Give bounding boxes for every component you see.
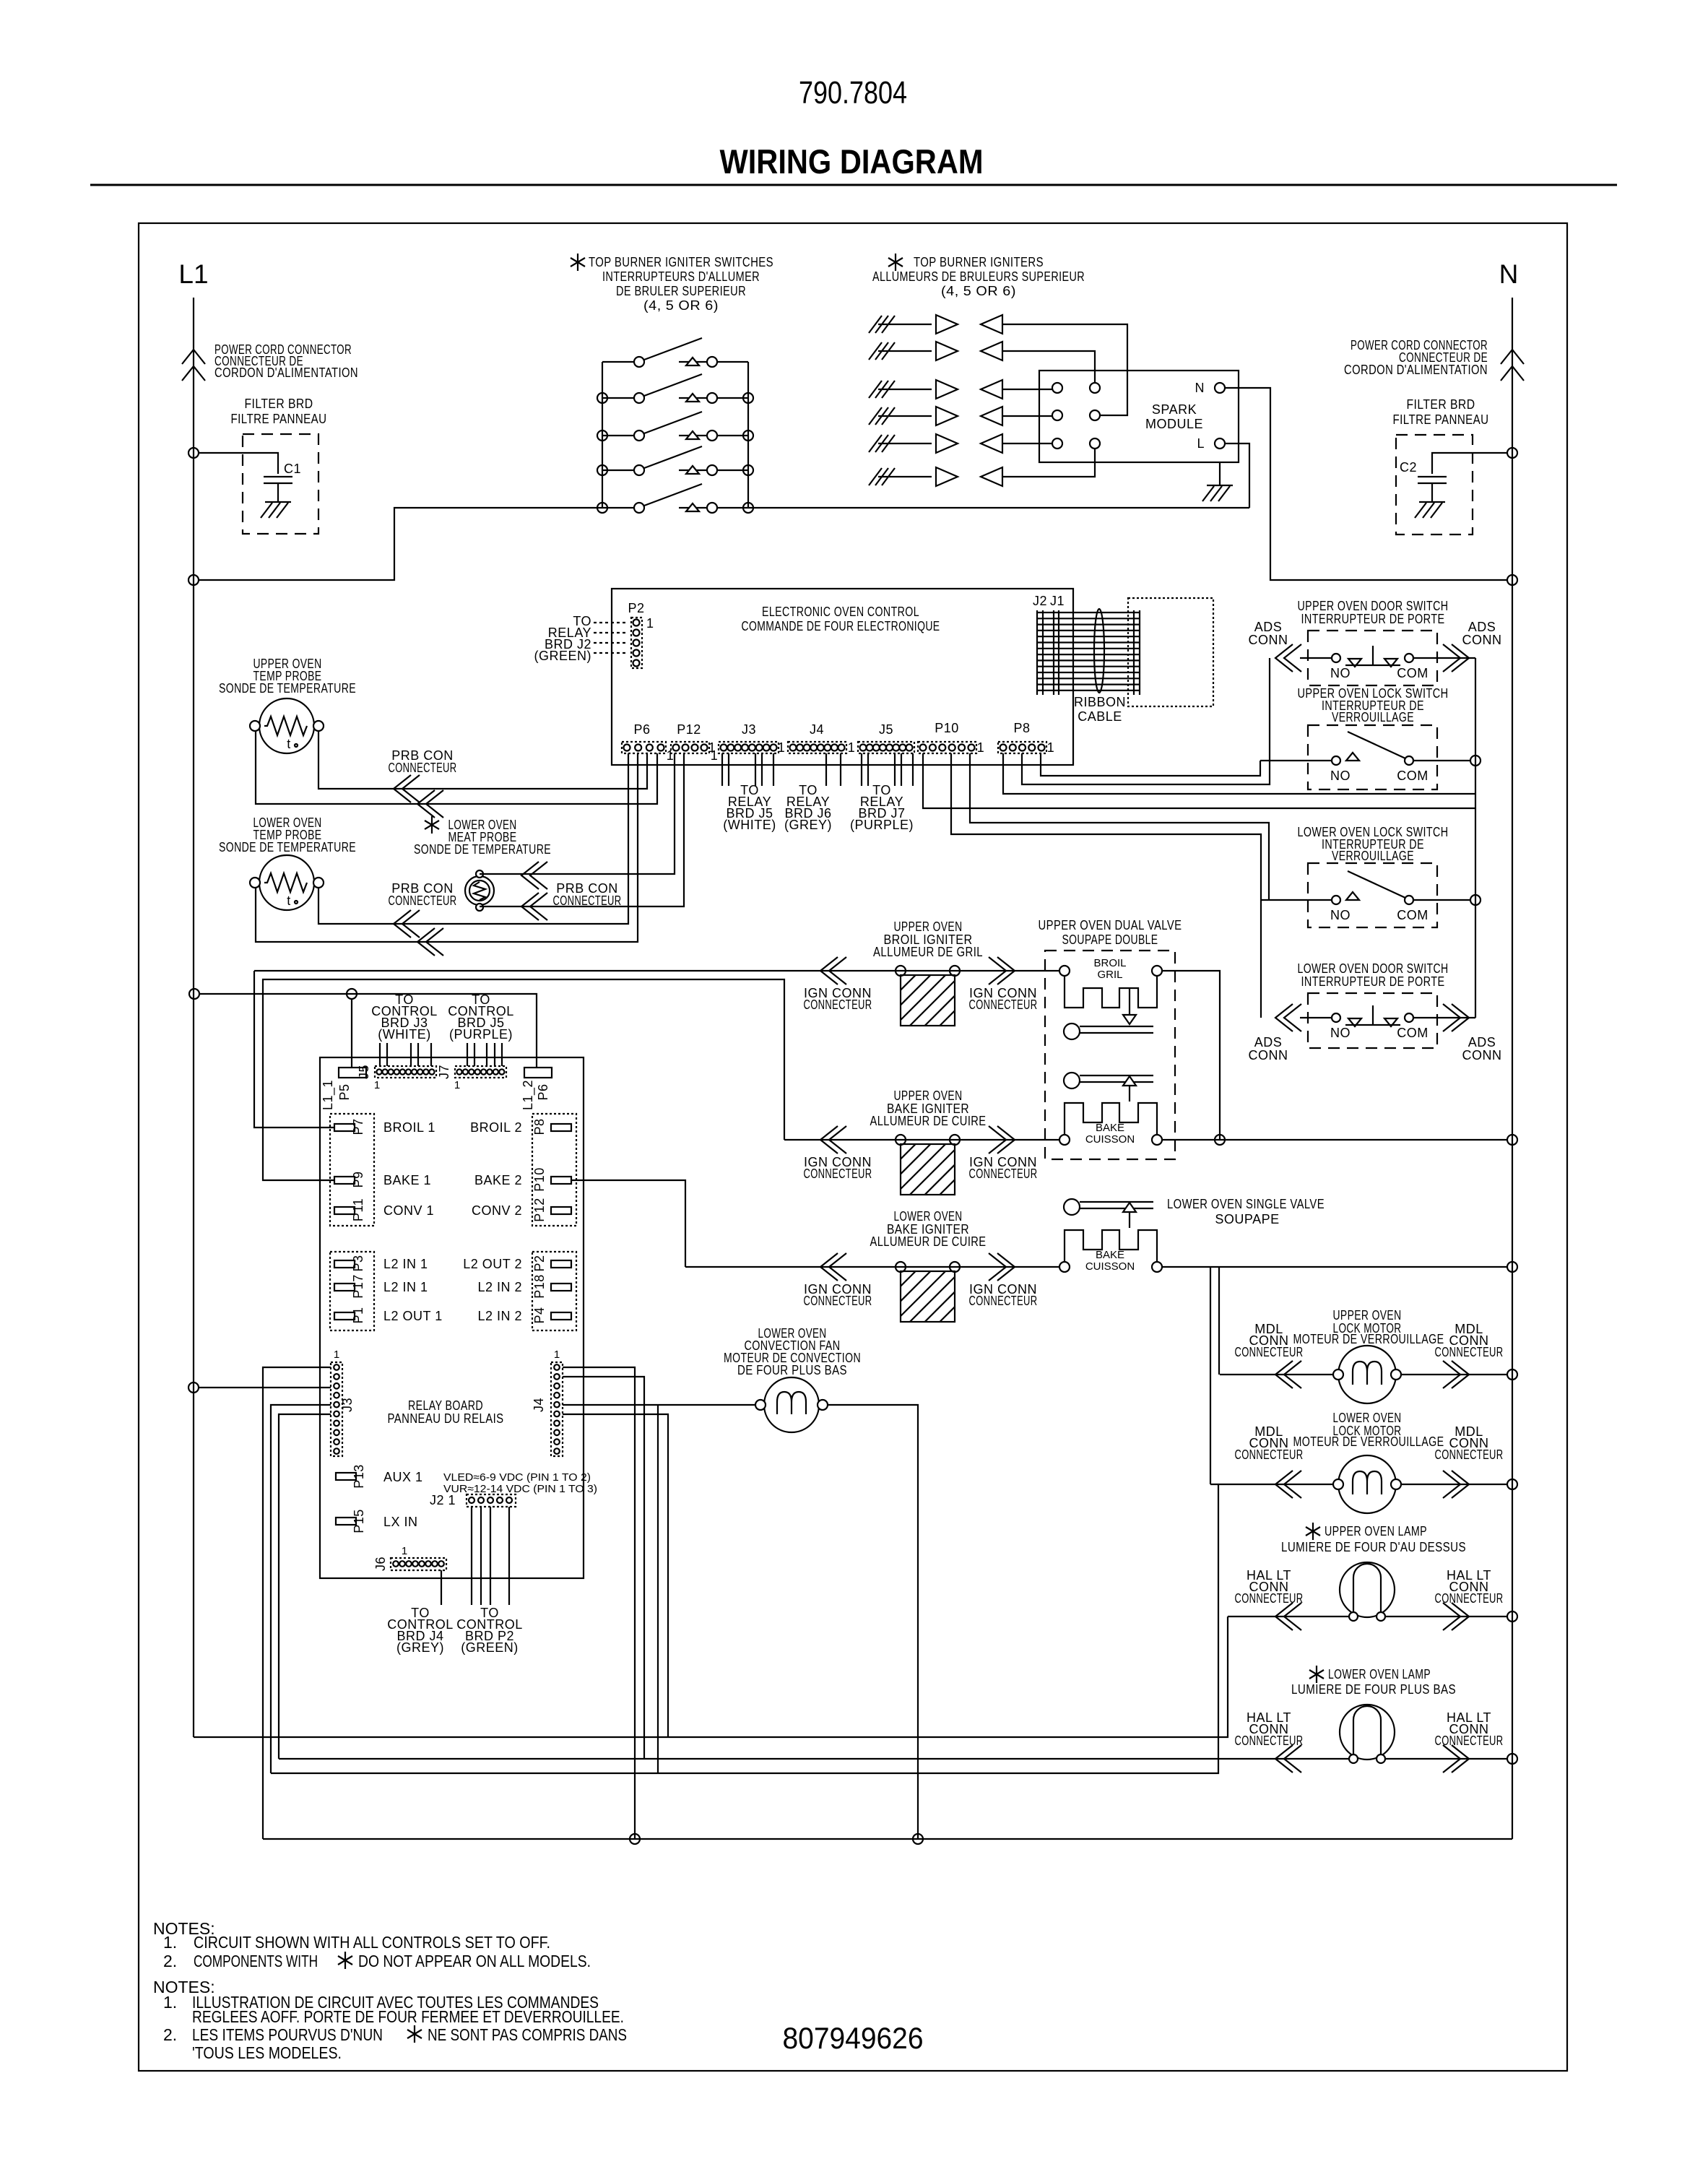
svg-text:2.: 2. <box>163 2025 177 2044</box>
svg-text:REGLEES AOFF. PORTE DE FOUR FE: REGLEES AOFF. PORTE DE FOUR FERMEE ET DE… <box>192 2007 624 2026</box>
svg-text:ALLUMEUR DE CUIRE: ALLUMEUR DE CUIRE <box>870 1234 987 1249</box>
svg-text:BAKE: BAKE <box>1096 1249 1124 1261</box>
wire P10 pin6 to lower lock switch <box>970 753 1269 900</box>
svg-text:(4, 5 OR 6): (4, 5 OR 6) <box>941 284 1016 298</box>
top burner igniter 2 <box>869 342 1002 360</box>
svg-text:NO: NO <box>1330 908 1351 922</box>
wire spark L to switch bus <box>1225 443 1249 508</box>
junction bus fan <box>913 1834 923 1844</box>
wire lower probe to P6 pin2 <box>256 753 638 942</box>
switch bank verticals <box>602 362 603 508</box>
svg-text:(GREY): (GREY) <box>396 1640 444 1655</box>
svg-text:LUMIERE DE FOUR PLUS BAS: LUMIERE DE FOUR PLUS BAS <box>1291 1682 1456 1697</box>
wire bottom bus <box>263 1838 1512 1840</box>
gas outlet bake upper <box>1064 1073 1080 1088</box>
wire P10 pin4 to lower door switch <box>951 753 1261 1018</box>
wire upper probe to P6 pin3 <box>318 731 647 789</box>
wire bake2 to lower igniter <box>571 1180 685 1267</box>
svg-text:LOWER OVEN: LOWER OVEN <box>1333 1411 1402 1425</box>
svg-text:1.: 1. <box>163 1933 177 1952</box>
svg-text:CONNECTEUR: CONNECTEUR <box>1435 1447 1504 1462</box>
svg-text:DE FOUR PLUS BAS: DE FOUR PLUS BAS <box>737 1363 847 1377</box>
connector P8 oven control <box>998 742 1046 753</box>
svg-text:CONNECTEUR: CONNECTEUR <box>969 997 1038 1012</box>
svg-text:COM: COM <box>1397 666 1429 680</box>
top burner igniter 5 <box>869 434 1002 453</box>
wire lower lock motor <box>1210 1484 1333 1485</box>
svg-text:1: 1 <box>374 1079 380 1091</box>
wire to lower lock motor <box>271 1484 1218 1773</box>
svg-text:1: 1 <box>554 1349 560 1361</box>
svg-text:P4: P4 <box>532 1307 547 1323</box>
title underline <box>90 184 1617 186</box>
svg-text:CONNECTEUR: CONNECTEUR <box>1235 1345 1304 1359</box>
svg-text:1: 1 <box>646 616 654 631</box>
svg-text:CORDON D'ALIMENTATION: CORDON D'ALIMENTATION <box>1344 363 1488 377</box>
wire lower probe to P6 pin1 <box>318 753 628 924</box>
svg-text:1: 1 <box>848 740 856 755</box>
svg-text:UPPER OVEN: UPPER OVEN <box>894 1088 963 1103</box>
svg-text:INTERRUPTEUR DE PORTE: INTERRUPTEUR DE PORTE <box>1301 612 1445 626</box>
junction switch bank <box>597 465 607 475</box>
wire igniter6 to spark <box>1002 449 1095 477</box>
connector ADS lower left <box>1275 1004 1301 1031</box>
junction N-C2 <box>1507 448 1517 458</box>
connector J2 relay <box>467 1494 516 1507</box>
junction N upper lamp <box>1507 1611 1517 1622</box>
wire broil1 loop <box>254 971 334 1128</box>
svg-text:L1: L1 <box>178 259 208 289</box>
svg-text:LUMIERE DE FOUR D'AU DESSUS: LUMIERE DE FOUR D'AU DESSUS <box>1281 1540 1466 1554</box>
svg-text:COM: COM <box>1397 908 1429 922</box>
ground C1 <box>261 502 291 518</box>
svg-text:P12: P12 <box>677 722 701 737</box>
relay board box <box>320 1057 584 1578</box>
svg-text:P12: P12 <box>532 1198 547 1222</box>
svg-text:L2 IN 1: L2 IN 1 <box>383 1280 428 1294</box>
wire C2 to N bus <box>1432 453 1507 474</box>
wire crossing vertical <box>657 1405 659 1773</box>
svg-text:ELECTRONIC OVEN CONTROL: ELECTRONIC OVEN CONTROL <box>762 605 919 619</box>
top burner igniter 3 <box>869 380 1002 399</box>
svg-text:J6: J6 <box>373 1557 388 1571</box>
svg-text:(PURPLE): (PURPLE) <box>850 818 914 832</box>
svg-text:INTERRUPTEUR DE PORTE: INTERRUPTEUR DE PORTE <box>1301 974 1445 989</box>
label upper oven lamp <box>1306 1523 1320 1540</box>
wire J4 pin1 to bus <box>563 1367 635 1839</box>
svg-text:CONNECTEUR: CONNECTEUR <box>804 1167 872 1181</box>
solenoid bake cuisson lower <box>1065 1230 1157 1262</box>
svg-text:MOTEUR DE VERROUILLAGE: MOTEUR DE VERROUILLAGE <box>1293 1434 1444 1449</box>
wire to lower lamp <box>279 1758 1257 1760</box>
svg-text:J5: J5 <box>357 1065 371 1079</box>
svg-text:P5: P5 <box>337 1083 352 1100</box>
wire P8 pin5 to upper lock switch <box>1041 753 1260 776</box>
junction N lower lamp <box>1507 1754 1517 1764</box>
svg-text:CONNECTEUR: CONNECTEUR <box>389 761 457 775</box>
svg-text:VUR≈12-14 VDC (PIN 1 TO 3): VUR≈12-14 VDC (PIN 1 TO 3) <box>443 1483 597 1495</box>
svg-text:LOWER OVEN LAMP: LOWER OVEN LAMP <box>1328 1667 1431 1682</box>
svg-text:P6: P6 <box>536 1083 550 1100</box>
svg-text:CIRCUIT SHOWN WITH ALL CONTROL: CIRCUIT SHOWN WITH ALL CONTROLS SET TO O… <box>194 1933 550 1952</box>
connector prb lower chevrons <box>394 910 420 938</box>
svg-text:LES ITEMS POURVUS D'NUN: LES ITEMS POURVUS D'NUN <box>192 2025 383 2044</box>
svg-text:J2 1: J2 1 <box>430 1493 456 1507</box>
svg-text:CONNECTEUR: CONNECTEUR <box>969 1167 1038 1181</box>
wire L1 to upper lamp <box>194 1616 1228 1737</box>
svg-text:SOUPAPE DOUBLE: SOUPAPE DOUBLE <box>1062 932 1158 947</box>
junction bus N upper <box>1507 1135 1517 1145</box>
junction bus N lower <box>1507 1262 1517 1272</box>
svg-text:RIBBON: RIBBON <box>1074 695 1126 709</box>
wire bus to lower lock motor <box>1210 1267 1211 1484</box>
svg-text:ALLUMEUR DE GRIL: ALLUMEUR DE GRIL <box>873 945 983 959</box>
wire J3 pin5 loop <box>271 1405 331 1773</box>
svg-text:(4, 5 OR 6): (4, 5 OR 6) <box>643 298 719 313</box>
connector J5 oven control <box>858 742 914 753</box>
svg-text:MODULE: MODULE <box>1145 417 1203 431</box>
igniter switch SW2 <box>602 374 748 403</box>
svg-text:P8: P8 <box>532 1118 547 1135</box>
svg-text:J3: J3 <box>340 1398 355 1412</box>
wire stubs J3 relay <box>721 753 723 786</box>
switch upper oven lock <box>1308 725 1437 789</box>
wire broil valve to bus <box>1162 971 1220 1141</box>
electronic oven control box <box>612 589 1073 765</box>
svg-text:P15: P15 <box>352 1509 366 1533</box>
svg-text:COM: COM <box>1397 769 1429 783</box>
svg-text:ADS: ADS <box>1254 1035 1283 1049</box>
svg-text:P2: P2 <box>532 1255 547 1271</box>
border frame <box>139 223 1567 2071</box>
svg-text:SONDE DE TEMPERATURE: SONDE DE TEMPERATURE <box>219 681 356 696</box>
wire meat probe to P12 pin1 <box>480 753 675 874</box>
svg-text:NO: NO <box>1330 1026 1351 1040</box>
svg-text:J7: J7 <box>437 1065 451 1079</box>
svg-text:MOTEUR DE VERROUILLAGE: MOTEUR DE VERROUILLAGE <box>1293 1332 1444 1346</box>
connector ADS lower right <box>1443 1004 1469 1031</box>
wire N bus <box>1512 298 1513 1839</box>
svg-text:P6: P6 <box>633 722 650 737</box>
junction broil-bake bus <box>1215 1135 1225 1145</box>
svg-text:1: 1 <box>334 1349 339 1361</box>
connector J3 relay <box>331 1362 342 1456</box>
svg-text:P7: P7 <box>351 1118 365 1135</box>
svg-text:1.: 1. <box>163 1993 177 2012</box>
svg-text:BAKE 2: BAKE 2 <box>474 1173 522 1187</box>
svg-text:CABLE: CABLE <box>1078 709 1122 724</box>
svg-text:UPPER OVEN LAMP: UPPER OVEN LAMP <box>1325 1524 1427 1538</box>
svg-text:CONN: CONN <box>1462 633 1502 647</box>
svg-text:P9: P9 <box>351 1171 365 1187</box>
connector J4 oven control <box>788 742 846 753</box>
resistor upper oven temp probe <box>250 698 324 753</box>
svg-text:(GREEN): (GREEN) <box>461 1640 519 1655</box>
svg-text:ADS: ADS <box>1254 620 1283 634</box>
svg-text:P1: P1 <box>351 1307 365 1323</box>
motor upper oven lock <box>1333 1346 1401 1403</box>
wire L1 to burner switch bus <box>199 508 602 580</box>
wire spark N to N-bus <box>1225 388 1507 580</box>
svg-text:LX IN: LX IN <box>383 1515 418 1529</box>
connector block P8 P10 P12 <box>532 1114 576 1226</box>
wire bake igniter <box>784 1139 1065 1141</box>
igniter switch SW5 <box>602 484 748 513</box>
svg-text:SONDE DE TEMPERATURE: SONDE DE TEMPERATURE <box>414 842 551 857</box>
svg-text:DE BRULER SUPERIEUR: DE BRULER SUPERIEUR <box>616 284 746 298</box>
svg-text:TOP BURNER IGNITERS: TOP BURNER IGNITERS <box>914 255 1044 269</box>
svg-text:CONNECTEUR: CONNECTEUR <box>969 1294 1038 1308</box>
junction N upper lock motor <box>1507 1369 1517 1380</box>
svg-text:CONNECTEUR: CONNECTEUR <box>1235 1447 1304 1462</box>
filter board C2 box <box>1396 435 1473 534</box>
svg-text:(WHITE): (WHITE) <box>723 818 776 832</box>
wire to C1 <box>199 453 278 474</box>
gas outlet lower <box>1064 1199 1080 1215</box>
lamp upper oven <box>1340 1562 1395 1621</box>
top burner igniter 1 <box>869 315 1002 334</box>
power cord connector L1 <box>182 350 205 381</box>
svg-text:INTERRUPTEURS D'ALLUMER: INTERRUPTEURS D'ALLUMER <box>602 269 760 284</box>
svg-text:'TOUS LES MODELES.: 'TOUS LES MODELES. <box>192 2043 342 2062</box>
wire igniter1 to spark <box>1002 324 1127 415</box>
gas outlet broil <box>1064 1023 1080 1039</box>
svg-text:FILTRE PANNEAU: FILTRE PANNEAU <box>231 412 327 426</box>
junction L1 switch-bus <box>188 575 199 585</box>
svg-text:COM: COM <box>1397 1026 1429 1040</box>
wire fan to bus <box>828 1405 918 1839</box>
svg-text:FILTER BRD: FILTER BRD <box>245 397 313 411</box>
wire J3 pin6 loop <box>279 1414 331 1759</box>
wire igniter3 to spark <box>1002 389 1052 390</box>
wire bake1 loop <box>263 979 784 1180</box>
ribbon cable right box <box>1128 598 1213 706</box>
svg-text:CONNECTEUR: CONNECTEUR <box>804 1294 872 1308</box>
wire lower bake igniter <box>685 1266 1065 1268</box>
junction L1 J3 <box>188 1382 199 1393</box>
connector prb upper chevrons <box>394 775 420 802</box>
svg-text:WIRING DIAGRAM: WIRING DIAGRAM <box>720 142 984 181</box>
connector J7 relay <box>455 1066 506 1078</box>
svg-text:BROIL 2: BROIL 2 <box>470 1120 522 1135</box>
connector J3 oven control <box>719 742 779 753</box>
svg-text:PANNEAU DU RELAIS: PANNEAU DU RELAIS <box>388 1411 504 1426</box>
connector prb meat chevrons <box>521 862 547 889</box>
connector P6 oven control <box>622 742 666 753</box>
wire door-lock COM vertical <box>1475 658 1476 1018</box>
svg-text:C1: C1 <box>284 462 301 476</box>
svg-text:L1_1: L1_1 <box>321 1080 336 1110</box>
svg-text:LOWER OVEN: LOWER OVEN <box>894 1209 963 1224</box>
svg-text:UPPER OVEN DOOR SWITCH: UPPER OVEN DOOR SWITCH <box>1298 599 1449 613</box>
resistor lower oven temp probe <box>250 855 324 910</box>
svg-text:BROIL: BROIL <box>1093 957 1126 969</box>
svg-text:CONV 2: CONV 2 <box>472 1203 522 1218</box>
svg-text:UPPER OVEN: UPPER OVEN <box>1333 1308 1402 1323</box>
top burner igniter 4 <box>869 407 1002 425</box>
junction bus J4 <box>630 1834 640 1844</box>
motor convection fan <box>755 1377 828 1432</box>
svg-text:TOP BURNER IGNITER SWITCHES: TOP BURNER IGNITER SWITCHES <box>589 255 773 269</box>
svg-text:ALLUMEURS DE BRULEURS SUPERIEU: ALLUMEURS DE BRULEURS SUPERIEUR <box>872 269 1085 284</box>
svg-text:t: t <box>287 893 291 908</box>
label lower oven meat probe <box>425 816 439 834</box>
svg-text:LOWER OVEN DOOR SWITCH: LOWER OVEN DOOR SWITCH <box>1298 961 1449 976</box>
igniter switch SW4 <box>602 446 748 475</box>
svg-text:J3: J3 <box>742 722 756 737</box>
svg-text:DO NOT APPEAR ON ALL MODELS.: DO NOT APPEAR ON ALL MODELS. <box>358 1952 591 1970</box>
svg-text:ADS: ADS <box>1468 620 1496 634</box>
svg-text:RELAY BOARD: RELAY BOARD <box>408 1398 483 1413</box>
spark module U1 <box>1039 371 1239 462</box>
wire stubs J4 relay <box>825 753 827 786</box>
svg-text:P3: P3 <box>351 1255 365 1271</box>
connector J5 relay <box>375 1066 436 1078</box>
svg-text:N: N <box>1195 381 1205 395</box>
svg-text:FILTER BRD: FILTER BRD <box>1407 397 1475 412</box>
svg-text:SONDE DE TEMPERATURE: SONDE DE TEMPERATURE <box>219 840 356 854</box>
valve upper oven dual box <box>1045 951 1175 1159</box>
connector block P7 P9 P11 <box>330 1114 374 1226</box>
switch upper oven door <box>1308 631 1437 685</box>
connector P10 oven control <box>918 742 976 753</box>
svg-text:P11: P11 <box>351 1198 365 1221</box>
svg-text:NO: NO <box>1330 666 1351 680</box>
svg-text:J5: J5 <box>879 722 893 737</box>
wire stubs J5 control <box>379 1043 381 1066</box>
wire stubs J5 relay <box>861 753 862 786</box>
wire upper probe to P6 pin4 <box>256 731 657 804</box>
svg-text:CONNECTEUR: CONNECTEUR <box>389 893 457 908</box>
svg-text:P18: P18 <box>532 1274 547 1299</box>
svg-text:CUISSON: CUISSON <box>1085 1133 1135 1146</box>
svg-text:1: 1 <box>977 740 985 755</box>
svg-text:J1: J1 <box>1050 594 1065 608</box>
svg-text:BAKE 1: BAKE 1 <box>383 1173 431 1187</box>
svg-text:L2 IN 2: L2 IN 2 <box>477 1309 522 1323</box>
wire upper lock motor <box>1220 1374 1333 1375</box>
junction switch bank <box>597 430 607 441</box>
svg-text:L2 IN 1: L2 IN 1 <box>383 1257 428 1271</box>
svg-text:L2 OUT 2: L2 OUT 2 <box>463 1257 522 1271</box>
ground C2 <box>1415 502 1445 518</box>
svg-text:t: t <box>287 737 291 751</box>
svg-text:FILTRE PANNEAU: FILTRE PANNEAU <box>1393 412 1489 427</box>
svg-text:P10: P10 <box>935 721 959 735</box>
label lower oven lamp <box>1309 1666 1324 1683</box>
svg-text:P17: P17 <box>351 1274 365 1299</box>
svg-text:CONNECTEUR: CONNECTEUR <box>1435 1345 1504 1359</box>
connector J6 relay <box>391 1558 446 1570</box>
wire upper lamp <box>1228 1616 1349 1617</box>
connector P15 <box>336 1518 356 1525</box>
svg-text:J2: J2 <box>1033 594 1047 608</box>
wire J4 pin5 to fan <box>563 1404 760 1406</box>
svg-text:CONNECTEUR: CONNECTEUR <box>553 893 622 908</box>
svg-text:807949626: 807949626 <box>783 2021 924 2055</box>
svg-text:L1_2: L1_2 <box>521 1080 536 1110</box>
wire L1 to P5 P6 <box>189 989 199 999</box>
svg-text:P8: P8 <box>1013 721 1030 735</box>
svg-text:1: 1 <box>708 740 716 755</box>
svg-text:NO: NO <box>1330 769 1351 783</box>
svg-text:ALLUMEUR DE CUIRE: ALLUMEUR DE CUIRE <box>870 1114 987 1128</box>
svg-text:AUX 1: AUX 1 <box>383 1470 423 1484</box>
junction N spark <box>1507 575 1517 585</box>
terminal N spark <box>1215 383 1225 393</box>
wire P8 pin3 to upper door switch <box>1022 658 1270 784</box>
wire bake valve bus <box>1162 1139 1507 1141</box>
svg-text:VERROUILLAGE: VERROUILLAGE <box>1332 849 1414 863</box>
svg-text:1: 1 <box>454 1079 460 1091</box>
wire switch bus to spark module L <box>748 507 1249 508</box>
wire igniter2 to spark <box>1002 351 1095 383</box>
svg-text:(PURPLE): (PURPLE) <box>449 1027 513 1042</box>
wire J3 pin1 to bottom bus <box>263 1367 331 1839</box>
switch lower oven lock <box>1308 863 1437 927</box>
svg-text:BROIL 1: BROIL 1 <box>383 1120 435 1135</box>
top burner igniter 6 <box>869 467 1002 486</box>
svg-text:COMPONENTS WITH: COMPONENTS WITH <box>194 1952 318 1970</box>
junction P5 <box>347 989 357 999</box>
svg-text:VLED≈6-9 VDC (PIN 1 TO 2): VLED≈6-9 VDC (PIN 1 TO 2) <box>443 1471 591 1484</box>
wire P8 pin1 to COM bus <box>1003 753 1475 794</box>
label top burner igniters <box>888 254 903 271</box>
svg-text:L: L <box>1197 436 1205 451</box>
connector P6 relay <box>524 1068 552 1078</box>
wire L1 to J3 pin3 <box>199 1387 331 1388</box>
svg-text:LOWER OVEN SINGLE VALVE: LOWER OVEN SINGLE VALVE <box>1167 1197 1325 1211</box>
connector block P3 P17 P1 <box>330 1252 374 1330</box>
wire L1 bus <box>193 298 194 1737</box>
power cord connector N <box>1501 350 1524 381</box>
svg-text:(GREEN): (GREEN) <box>534 649 592 663</box>
svg-text:J4: J4 <box>810 722 824 737</box>
svg-text:L2 IN 2: L2 IN 2 <box>477 1280 522 1294</box>
lamp lower oven <box>1340 1705 1395 1763</box>
svg-text:C2: C2 <box>1400 460 1417 475</box>
wire igniter4 to spark <box>1002 415 1052 417</box>
svg-text:P10: P10 <box>532 1167 547 1192</box>
resistor meat probe <box>465 870 494 911</box>
svg-text:BAKE: BAKE <box>1096 1122 1124 1134</box>
wire J2 pins to control <box>471 1507 472 1605</box>
connector P5 <box>339 1068 366 1078</box>
wire stubs J7 control <box>467 1043 468 1066</box>
connector J4 relay <box>551 1362 563 1456</box>
connector P13 <box>336 1473 356 1480</box>
junction N lower lock motor <box>1507 1479 1517 1489</box>
wire P10 pin1 to COM bus <box>923 753 1475 808</box>
svg-text:CORDON D'ALIMENTATION: CORDON D'ALIMENTATION <box>214 365 358 380</box>
svg-text:CUISSON: CUISSON <box>1085 1260 1135 1273</box>
svg-text:1: 1 <box>778 740 786 755</box>
svg-text:P2: P2 <box>628 601 644 615</box>
svg-text:(WHITE): (WHITE) <box>378 1027 430 1042</box>
junction lower lock COM <box>1470 895 1481 905</box>
svg-text:J4: J4 <box>532 1398 546 1412</box>
svg-text:SOUPAPE: SOUPAPE <box>1215 1212 1279 1226</box>
terminal L spark <box>1215 438 1225 449</box>
switch lower oven door <box>1308 993 1437 1048</box>
label top burner igniter switches <box>571 254 585 271</box>
wire J4 pin6 loop <box>563 1414 668 1737</box>
svg-text:NE SONT PAS COMPRIS DANS: NE SONT PAS COMPRIS DANS <box>428 2025 627 2044</box>
junction switch bus <box>597 503 607 513</box>
igniter switch SW3 <box>602 412 748 441</box>
junction upper lock COM <box>1470 756 1481 766</box>
svg-text:CONN: CONN <box>1249 1048 1288 1062</box>
